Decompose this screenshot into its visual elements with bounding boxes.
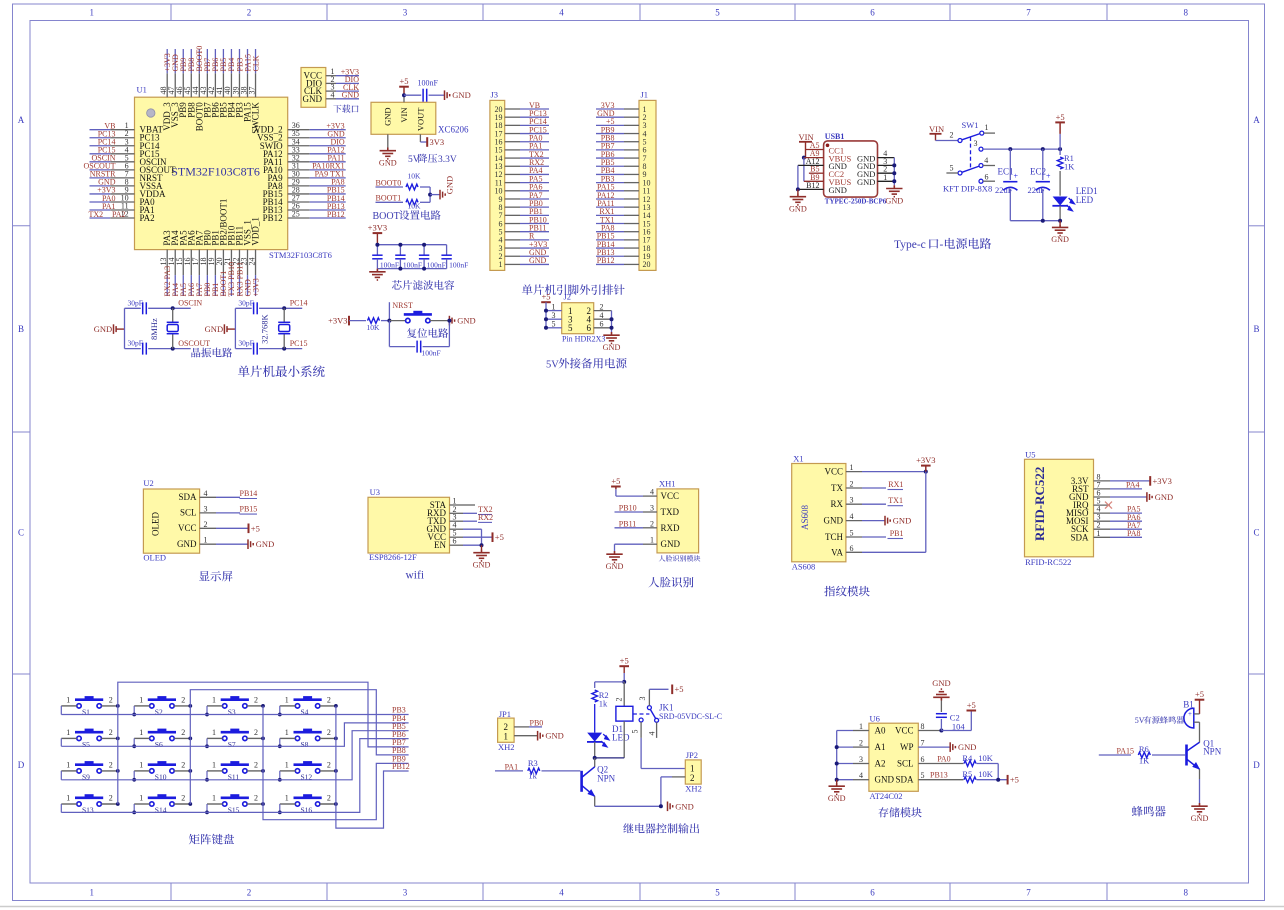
wire to R2 bbox=[595, 681, 625, 683]
svg-text:PB0: PB0 bbox=[530, 719, 544, 728]
capacitor 100nF bbox=[423, 89, 427, 102]
svg-text:3: 3 bbox=[974, 139, 978, 148]
svg-text:+5: +5 bbox=[1195, 689, 1204, 699]
svg-text:100nF: 100nF bbox=[422, 349, 441, 358]
wire left gnd rail bbox=[797, 165, 799, 189]
svg-text:EN: EN bbox=[434, 540, 446, 550]
svg-text:2: 2 bbox=[327, 760, 331, 769]
net label RX2 bbox=[463, 520, 477, 522]
label face recognition bbox=[648, 577, 693, 588]
svg-text:5: 5 bbox=[631, 730, 640, 734]
U1 pin 40 PB4 wire bbox=[230, 73, 232, 97]
diode LED1 bbox=[1053, 197, 1068, 206]
svg-text:OLED: OLED bbox=[151, 512, 161, 536]
button S3 bbox=[221, 700, 249, 708]
svg-text:+5: +5 bbox=[495, 532, 504, 542]
svg-text:+5: +5 bbox=[399, 76, 408, 86]
svg-text:GND: GND bbox=[383, 108, 393, 126]
wire pin3 to rail bbox=[983, 148, 1060, 150]
svg-text:AS608: AS608 bbox=[792, 562, 816, 572]
svg-text:GND: GND bbox=[958, 742, 976, 752]
wire emitter down bbox=[594, 796, 596, 806]
svg-text:GND: GND bbox=[342, 91, 360, 100]
svg-text:B12: B12 bbox=[806, 181, 819, 190]
svg-text:3: 3 bbox=[850, 496, 854, 505]
U1 pin 23 VSS_1 wire bbox=[247, 250, 249, 276]
svg-text:1: 1 bbox=[650, 536, 654, 545]
svg-text:5: 5 bbox=[850, 529, 854, 538]
svg-text:PB12: PB12 bbox=[327, 210, 345, 219]
ground earth bbox=[369, 269, 385, 280]
button S16 bbox=[294, 798, 322, 806]
U1 pin 28 PB15 wire bbox=[288, 193, 310, 195]
S10 pin1 wire bbox=[134, 770, 149, 772]
svg-text:4: 4 bbox=[850, 512, 854, 521]
capacitor C 100nF #2 bbox=[399, 245, 401, 256]
svg-text:24: 24 bbox=[247, 258, 256, 266]
svg-text:-: - bbox=[940, 239, 944, 251]
U1 pin 21 PB10 wire bbox=[230, 250, 232, 276]
svg-text:PB13: PB13 bbox=[930, 771, 948, 780]
connector J3 bbox=[490, 100, 505, 270]
svg-text:VIN: VIN bbox=[399, 108, 409, 123]
J3 pin 6 wire bbox=[505, 223, 520, 225]
power +5 bbox=[611, 487, 621, 490]
ground GND earth bbox=[606, 551, 622, 562]
wire to resistor bbox=[349, 320, 366, 322]
svg-text:1: 1 bbox=[985, 123, 989, 132]
resistor R1 1K bbox=[1059, 149, 1061, 155]
wire GND pin4 bbox=[463, 528, 482, 530]
U1 pin 27 PB14 wire bbox=[288, 201, 310, 203]
capacitor EC2 22uF bbox=[1042, 149, 1044, 180]
U1 pin 11 PA1 wire bbox=[110, 209, 134, 211]
J1 pin 8 wire bbox=[624, 165, 639, 167]
ground GND bbox=[1110, 496, 1147, 498]
svg-text:VDD_1: VDD_1 bbox=[251, 217, 261, 246]
J1 pin 18 wire bbox=[624, 247, 639, 249]
diode D1 LED bbox=[587, 733, 602, 742]
power +5 bbox=[619, 665, 629, 667]
wire row2 bus to PB4 bbox=[61, 723, 408, 746]
J3 pin 18 wire bbox=[505, 124, 520, 126]
svg-text:1: 1 bbox=[90, 8, 95, 18]
svg-text:U6: U6 bbox=[870, 713, 880, 723]
U1 pin 25 PB12 wire bbox=[288, 217, 310, 219]
S4 pin2 wire bbox=[320, 705, 336, 707]
connector J2 Pin HDR2X3 bbox=[562, 303, 594, 334]
label chip filter caps bbox=[392, 280, 454, 290]
svg-text:2: 2 bbox=[327, 695, 331, 704]
crystal 8MHz bbox=[171, 306, 175, 310]
svg-text:5V: 5V bbox=[546, 360, 559, 371]
svg-text:4: 4 bbox=[984, 156, 988, 165]
svg-text:PB1: PB1 bbox=[890, 529, 904, 538]
S5 pin2 wire bbox=[101, 737, 117, 739]
ground GND earth bbox=[603, 332, 619, 343]
connector J1 bbox=[639, 100, 656, 270]
label xiazaikou bbox=[333, 105, 358, 113]
button S5 bbox=[75, 732, 103, 740]
U2 pin 2 VCC wire bbox=[200, 527, 216, 529]
canvas bottom edge bbox=[0, 906, 1284, 908]
svg-text:C: C bbox=[1253, 528, 1259, 538]
svg-text:10K: 10K bbox=[408, 202, 422, 211]
svg-text:SDA: SDA bbox=[895, 775, 914, 785]
U1 pin 35 VSS_2 wire bbox=[288, 137, 310, 139]
svg-text:PA2: PA2 bbox=[112, 210, 126, 219]
S11 pin1 wire bbox=[207, 770, 223, 772]
J3 pin 12 wire bbox=[505, 173, 520, 175]
J1 pin 15 wire bbox=[624, 223, 639, 225]
svg-text:PB14: PB14 bbox=[240, 489, 258, 498]
U1 pin 26 PB13 wire bbox=[288, 209, 310, 211]
U1 pin 17 PA7 wire bbox=[198, 250, 200, 276]
svg-text:10K: 10K bbox=[978, 753, 994, 763]
S5 pin1 wire bbox=[61, 737, 77, 739]
svg-text:2: 2 bbox=[254, 794, 258, 803]
net label PA6 bbox=[1110, 520, 1142, 522]
U1 pin 14 PA4 wire bbox=[174, 250, 176, 276]
wire +5 down bbox=[623, 666, 625, 673]
transistor Q2 NPN bbox=[594, 758, 596, 767]
wire JP2 pin2 bbox=[672, 776, 685, 778]
wire bottom rail bbox=[1010, 220, 1060, 222]
svg-text:AT24C02: AT24C02 bbox=[870, 791, 903, 801]
net label PA8 bbox=[1110, 536, 1142, 538]
J1 pin 3 wire bbox=[624, 124, 639, 126]
S14 pin2 wire bbox=[174, 803, 190, 805]
U1 pin 2 PC13 wire bbox=[110, 137, 134, 139]
svg-text:+5: +5 bbox=[1010, 775, 1019, 785]
J1 pin 2 wire bbox=[624, 116, 639, 118]
capacitor C2 104 bbox=[940, 719, 942, 731]
svg-text:6: 6 bbox=[921, 755, 925, 764]
S16 pin1 wire bbox=[280, 803, 296, 805]
net label PA5 bbox=[1110, 512, 1142, 514]
net label PA0 + resistor R4 10K bbox=[918, 763, 963, 765]
svg-text:VCC: VCC bbox=[178, 523, 197, 533]
display U2 OLED bbox=[143, 489, 199, 553]
svg-text:1: 1 bbox=[850, 463, 854, 472]
svg-text:2: 2 bbox=[650, 519, 654, 528]
svg-text:B: B bbox=[1253, 324, 1259, 334]
svg-text:1: 1 bbox=[90, 888, 95, 898]
label crystal circuit bbox=[191, 348, 232, 358]
svg-text:GND: GND bbox=[661, 539, 681, 549]
svg-text:GND: GND bbox=[473, 561, 491, 570]
wire col4 bus to PB12 bbox=[336, 706, 409, 828]
svg-text:PB12: PB12 bbox=[597, 256, 615, 265]
ground GND up bbox=[933, 689, 949, 700]
ground GND earth left bbox=[797, 189, 799, 193]
ground GND earth bbox=[836, 780, 838, 783]
wire VA to +3V3 bbox=[862, 551, 926, 553]
SW1 dashed link bbox=[970, 137, 972, 170]
svg-text:5: 5 bbox=[568, 323, 573, 333]
U1 pin 37 SWCLK wire bbox=[255, 73, 257, 97]
U1 pin 39 PB3 wire bbox=[238, 73, 240, 97]
svg-text:5: 5 bbox=[715, 888, 720, 898]
svg-text:J3: J3 bbox=[491, 90, 499, 100]
U1 pin 44 BOOT0 wire bbox=[198, 73, 200, 97]
ground GND right bbox=[668, 802, 673, 812]
svg-text:PB12: PB12 bbox=[392, 762, 410, 771]
U1 pin 22 PB11 wire bbox=[238, 250, 240, 276]
capacitor C 100nF #4 bbox=[446, 245, 448, 256]
regulator U? XC6206 bbox=[371, 102, 436, 134]
wire +5 down bbox=[1199, 700, 1201, 714]
SW1 pin3 bbox=[979, 147, 983, 151]
svg-text:STM32F103C8T6: STM32F103C8T6 bbox=[269, 250, 332, 260]
svg-text:1K: 1K bbox=[1064, 162, 1075, 172]
U1 pin 48 VDD_3 wire bbox=[166, 73, 168, 97]
J3 pin 20 wire bbox=[505, 108, 520, 110]
svg-text:3: 3 bbox=[403, 8, 408, 18]
power +5 right bbox=[1007, 775, 1009, 785]
svg-text:6: 6 bbox=[870, 888, 875, 898]
svg-text:2: 2 bbox=[247, 8, 252, 18]
svg-text:GND: GND bbox=[379, 159, 397, 168]
connector USB1 TYPEC-250D-BCP6 bbox=[824, 141, 878, 197]
J2 pin 3 wire bbox=[546, 318, 562, 320]
J3 pin 4 wire bbox=[505, 239, 520, 241]
U1 pin 20 PB2/BOOT1 wire bbox=[222, 250, 224, 276]
svg-text:+5: +5 bbox=[620, 656, 629, 666]
svg-text:GND: GND bbox=[932, 678, 950, 688]
U1 pin 33 PA12 wire bbox=[288, 153, 310, 155]
wire buzzer pins bbox=[1194, 713, 1200, 715]
svg-text:7: 7 bbox=[1026, 8, 1031, 18]
SW1 pole 1-2 bbox=[958, 139, 962, 143]
button S7 bbox=[221, 732, 249, 740]
svg-text:VCC: VCC bbox=[824, 467, 843, 477]
download port pin 1 VCC wire bbox=[326, 75, 336, 77]
resistor R3 1k bbox=[528, 768, 540, 774]
svg-text:2: 2 bbox=[504, 722, 509, 732]
ground GND right bbox=[449, 316, 454, 326]
J1 pin 1 wire bbox=[624, 108, 639, 110]
U2 pin 4 SDA wire bbox=[200, 496, 216, 498]
svg-text:NRST: NRST bbox=[392, 301, 413, 310]
power +5 bbox=[399, 87, 409, 96]
svg-text:A: A bbox=[1253, 115, 1260, 125]
ground GND bbox=[514, 735, 538, 737]
U1 pin 24 VDD_1 wire bbox=[255, 250, 257, 276]
wire B12 GND bbox=[798, 188, 824, 190]
svg-text:6: 6 bbox=[870, 8, 875, 18]
resistor R2 1k bbox=[592, 690, 598, 702]
U1 pin 43 PB7 wire bbox=[206, 73, 208, 97]
svg-text:6: 6 bbox=[850, 544, 854, 553]
svg-text:100nF: 100nF bbox=[427, 260, 446, 269]
svg-text:EC2: EC2 bbox=[1030, 167, 1046, 177]
crystal 32.768K bbox=[282, 306, 286, 310]
svg-text:VA: VA bbox=[831, 547, 843, 557]
svg-text:S7: S7 bbox=[228, 740, 236, 749]
svg-text:2: 2 bbox=[247, 888, 252, 898]
svg-text:GND: GND bbox=[545, 731, 563, 741]
wire relay bottom bbox=[623, 721, 625, 758]
button S9 bbox=[75, 765, 103, 773]
wire collector bbox=[1199, 722, 1201, 742]
ground GND bbox=[862, 520, 885, 522]
J2 pin 5 wire bbox=[546, 327, 562, 329]
power +5 VCC bbox=[463, 536, 493, 538]
U1 pin 4 PC15 wire bbox=[110, 153, 134, 155]
svg-text:TXD: TXD bbox=[661, 507, 680, 517]
svg-text:BOOT0: BOOT0 bbox=[376, 178, 402, 187]
svg-text:2: 2 bbox=[109, 695, 113, 704]
svg-text:BOOT1: BOOT1 bbox=[376, 194, 402, 203]
svg-text:KFT DIP-8X8: KFT DIP-8X8 bbox=[943, 184, 992, 194]
J2 pin 2 wire bbox=[594, 310, 612, 312]
svg-text:1: 1 bbox=[285, 728, 289, 737]
svg-text:TX2: TX2 bbox=[89, 210, 104, 219]
S3 pin2 wire bbox=[247, 705, 263, 707]
svg-text:VCC: VCC bbox=[661, 491, 680, 501]
svg-text:RXD: RXD bbox=[661, 523, 681, 533]
fingerprint X1 AS608 bbox=[792, 464, 846, 562]
wire VIN to pin2 bbox=[936, 140, 958, 142]
U1 pin 41 PB5 wire bbox=[222, 73, 224, 97]
svg-text:+: + bbox=[1014, 172, 1019, 181]
svg-text:30pF: 30pF bbox=[238, 339, 253, 348]
svg-text:U3: U3 bbox=[370, 487, 380, 497]
svg-text:20: 20 bbox=[643, 260, 651, 269]
J2 pin 4 wire bbox=[594, 318, 612, 320]
wire boot rail bbox=[429, 187, 431, 202]
net label PB14 bbox=[216, 496, 240, 498]
svg-text:PA8: PA8 bbox=[1127, 529, 1141, 538]
svg-text:XH1: XH1 bbox=[659, 479, 676, 489]
svg-text:A2: A2 bbox=[875, 759, 886, 769]
svg-text:+5: +5 bbox=[251, 523, 260, 533]
svg-text:8: 8 bbox=[921, 722, 925, 731]
svg-text:PA15: PA15 bbox=[1117, 747, 1135, 756]
svg-text:1: 1 bbox=[499, 260, 503, 269]
power +5 bbox=[216, 527, 249, 529]
svg-text:GND: GND bbox=[256, 539, 274, 549]
label MCU minimum system bbox=[238, 365, 325, 377]
J3 pin 17 wire bbox=[505, 133, 520, 135]
svg-text:+5: +5 bbox=[611, 476, 620, 486]
svg-text:6: 6 bbox=[587, 323, 592, 333]
J1 pin 13 wire bbox=[624, 206, 639, 208]
power +5 bbox=[1195, 699, 1205, 701]
svg-text:2: 2 bbox=[109, 728, 113, 737]
svg-text:GND: GND bbox=[177, 539, 197, 549]
label reset circuit bbox=[407, 328, 448, 338]
wire vert to B9 bbox=[803, 158, 805, 182]
wire col1 bus to PB7 bbox=[118, 682, 409, 804]
wire +5 down bbox=[1059, 134, 1061, 149]
S15 pin2 wire bbox=[247, 803, 263, 805]
connector download port bbox=[301, 68, 326, 108]
svg-text:2: 2 bbox=[181, 760, 185, 769]
svg-text:PA4: PA4 bbox=[1126, 481, 1140, 490]
svg-text:1: 1 bbox=[139, 695, 143, 704]
svg-text:2: 2 bbox=[615, 698, 624, 702]
wire GND pin bbox=[387, 134, 389, 147]
svg-text:SCL: SCL bbox=[180, 508, 197, 518]
wire CC1 A5 bbox=[806, 149, 824, 151]
svg-text:PB15: PB15 bbox=[240, 505, 258, 514]
button S11 bbox=[221, 765, 249, 773]
svg-text:D: D bbox=[1253, 760, 1260, 770]
S7 pin2 wire bbox=[247, 737, 263, 739]
svg-text:1: 1 bbox=[66, 794, 70, 803]
svg-text:S15: S15 bbox=[228, 806, 240, 815]
svg-text:3.3V: 3.3V bbox=[438, 155, 457, 165]
wifi module U3 ESP8266-12F bbox=[368, 497, 450, 553]
U1 pin 10 PA0 wire bbox=[110, 201, 134, 203]
svg-text:30pF: 30pF bbox=[238, 298, 253, 307]
capacitor EC1 22uF bbox=[1009, 149, 1011, 180]
svg-text:GND: GND bbox=[857, 177, 875, 187]
U1 pin 6 OSCOUT wire bbox=[110, 169, 134, 171]
svg-text:S13: S13 bbox=[82, 806, 94, 815]
ground GND earth bbox=[481, 545, 483, 549]
label storage module bbox=[878, 807, 921, 817]
S12 pin2 wire bbox=[320, 770, 336, 772]
button S10 bbox=[148, 765, 176, 773]
svg-text:2: 2 bbox=[181, 695, 185, 704]
U2 pin 1 GND wire bbox=[200, 543, 216, 545]
svg-text:1: 1 bbox=[204, 536, 208, 545]
svg-text:2: 2 bbox=[859, 739, 863, 748]
wire +3V3 to rail bbox=[376, 233, 378, 245]
ground GND earth bbox=[1191, 803, 1207, 814]
J2 pin 1 wire bbox=[546, 310, 562, 312]
svg-text:GND: GND bbox=[205, 324, 223, 334]
resistor 10K bbox=[368, 318, 380, 324]
svg-text:1: 1 bbox=[1097, 529, 1101, 538]
svg-text:GND: GND bbox=[675, 801, 693, 811]
svg-text:1: 1 bbox=[212, 794, 216, 803]
J3 pin 11 wire bbox=[505, 182, 520, 184]
svg-text:3: 3 bbox=[859, 755, 863, 764]
svg-text:1k: 1k bbox=[528, 771, 537, 781]
resistor R 10K lower bbox=[406, 200, 418, 206]
wire R2 to LED bbox=[594, 704, 596, 733]
wire A12 GND bbox=[798, 164, 824, 166]
U1 pin 13 PA3 wire bbox=[166, 250, 168, 276]
svg-text:A: A bbox=[18, 115, 25, 125]
wire GND bbox=[615, 543, 644, 545]
J3 pin 13 wire bbox=[505, 165, 520, 167]
J1 pin 9 wire bbox=[624, 173, 639, 175]
svg-text:PC15: PC15 bbox=[290, 339, 308, 348]
svg-text:J2: J2 bbox=[564, 292, 572, 302]
power +5 bbox=[1055, 122, 1065, 133]
reset button bbox=[389, 320, 405, 322]
wire R1 to LED bbox=[1059, 171, 1061, 196]
svg-text:4: 4 bbox=[859, 771, 863, 780]
SW1 pin6 bbox=[979, 179, 983, 183]
svg-text:S8: S8 bbox=[301, 740, 309, 749]
U1 pin 46 PB9 wire bbox=[182, 73, 184, 97]
wire STA stub bbox=[463, 504, 475, 506]
svg-text:TCH: TCH bbox=[825, 532, 844, 542]
S12 pin1 wire bbox=[280, 770, 296, 772]
svg-text:JP1: JP1 bbox=[499, 709, 511, 719]
svg-text:XH2: XH2 bbox=[685, 784, 702, 794]
svg-text:GND: GND bbox=[529, 256, 547, 265]
wire NRST up bbox=[388, 302, 390, 320]
J1 pin 4 wire bbox=[624, 133, 639, 135]
svg-text:1: 1 bbox=[883, 173, 887, 182]
